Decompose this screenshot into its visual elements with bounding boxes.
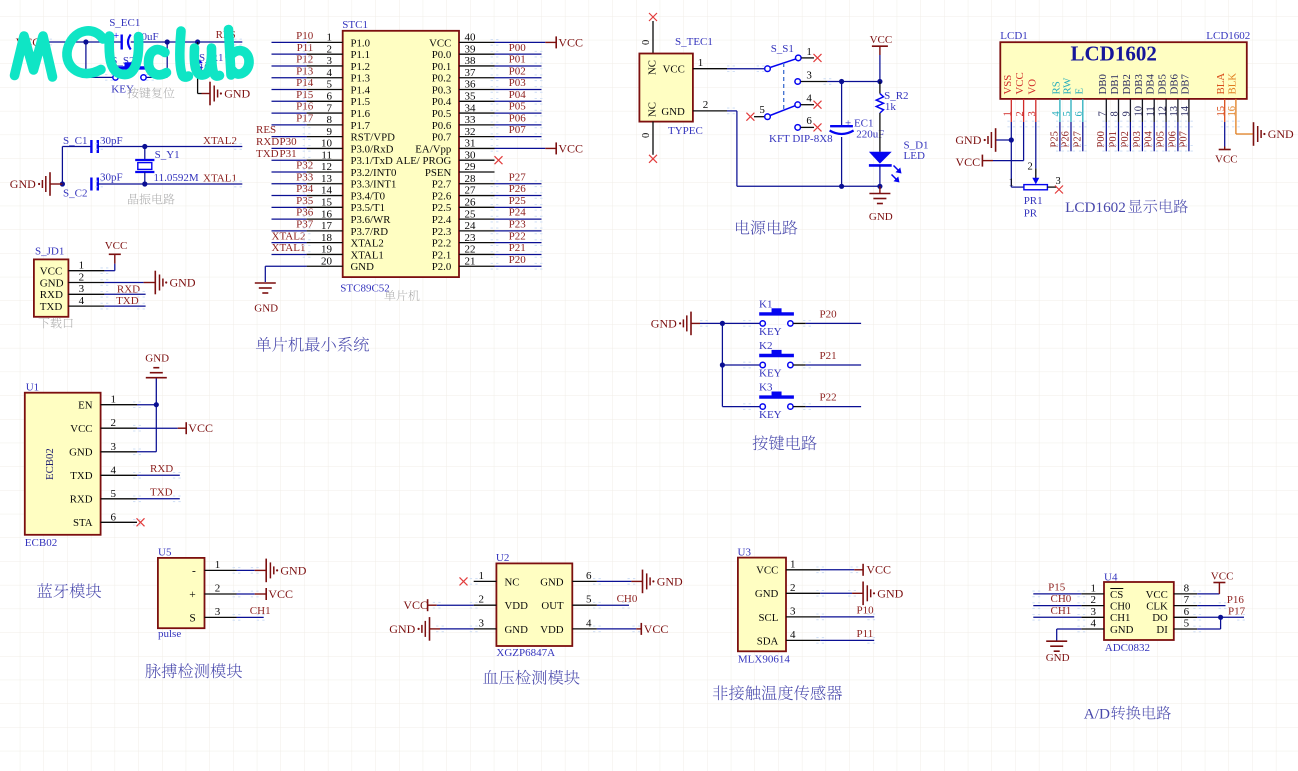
- svg-text:VCC: VCC: [105, 240, 128, 252]
- svg-text:3: 3: [790, 605, 796, 617]
- svg-text:30pF: 30pF: [100, 172, 123, 184]
- svg-text:VCC: VCC: [1211, 571, 1234, 583]
- svg-text:3: 3: [806, 69, 812, 81]
- svg-text:P16: P16: [1227, 594, 1245, 606]
- svg-text:11: 11: [321, 149, 332, 161]
- svg-text:TYPEC: TYPEC: [668, 125, 703, 137]
- svg-text:STC89C52: STC89C52: [340, 283, 390, 295]
- svg-text:RW: RW: [1062, 77, 1074, 95]
- svg-text:TXD: TXD: [116, 295, 139, 307]
- svg-text:DI: DI: [1156, 624, 1168, 636]
- svg-text:1: 1: [790, 558, 796, 570]
- svg-text:XTAL1: XTAL1: [351, 249, 384, 261]
- svg-text:11: 11: [1145, 106, 1156, 116]
- svg-text:DB1: DB1: [1109, 74, 1121, 94]
- svg-text:3: 3: [1027, 111, 1038, 116]
- svg-text:5: 5: [327, 79, 333, 91]
- svg-text:LCD1: LCD1: [1000, 30, 1028, 42]
- svg-text:14: 14: [321, 185, 333, 197]
- svg-text:P21: P21: [509, 242, 526, 254]
- svg-text:1: 1: [215, 559, 221, 571]
- svg-text:22: 22: [465, 244, 476, 256]
- svg-text:PR: PR: [1024, 208, 1038, 220]
- svg-text:P22: P22: [820, 392, 837, 404]
- svg-text:K3: K3: [759, 382, 773, 394]
- svg-text:GND: GND: [651, 316, 677, 330]
- svg-text:CH1: CH1: [1051, 605, 1072, 617]
- svg-text:2: 2: [215, 583, 221, 595]
- svg-text:2: 2: [703, 99, 709, 111]
- svg-text:P3.7/RD: P3.7/RD: [351, 226, 389, 238]
- svg-text:CS: CS: [1110, 589, 1123, 601]
- svg-text:P02: P02: [509, 65, 526, 77]
- svg-text:P25: P25: [509, 195, 527, 207]
- svg-text:VDD: VDD: [505, 600, 529, 612]
- svg-text:GND: GND: [351, 261, 375, 273]
- svg-text:P1.5: P1.5: [351, 96, 371, 108]
- svg-text:32: 32: [465, 126, 476, 138]
- svg-text:-: -: [192, 565, 196, 577]
- svg-text:S_C2: S_C2: [63, 188, 87, 200]
- svg-text:P1.0: P1.0: [351, 37, 371, 49]
- svg-text:VCC: VCC: [268, 587, 293, 601]
- svg-text:6: 6: [1184, 606, 1190, 618]
- svg-text:KEY: KEY: [759, 409, 782, 421]
- svg-text:S_TEC1: S_TEC1: [675, 36, 713, 48]
- svg-text:P22: P22: [509, 230, 526, 242]
- svg-text:2: 2: [1091, 594, 1097, 606]
- svg-text:CH0: CH0: [1110, 601, 1130, 613]
- svg-text:17: 17: [321, 220, 333, 232]
- svg-text:GND: GND: [505, 624, 529, 636]
- svg-text:VCC: VCC: [663, 64, 685, 76]
- svg-text:GND: GND: [1268, 127, 1294, 141]
- svg-text:P23: P23: [509, 218, 527, 230]
- svg-text:10: 10: [1134, 106, 1145, 117]
- svg-text:2: 2: [111, 417, 117, 429]
- svg-text:P36: P36: [296, 207, 314, 219]
- svg-text:P10: P10: [296, 30, 314, 42]
- svg-text:19: 19: [321, 244, 333, 256]
- svg-text:KFT DIP-8X8: KFT DIP-8X8: [769, 133, 833, 145]
- svg-text:8: 8: [327, 114, 333, 126]
- svg-text:40: 40: [465, 32, 477, 44]
- svg-text:P27: P27: [509, 171, 527, 183]
- svg-text:7: 7: [327, 102, 333, 114]
- svg-text:P12: P12: [296, 54, 313, 66]
- svg-text:VO: VO: [1026, 79, 1038, 95]
- svg-text:DB0: DB0: [1097, 74, 1109, 94]
- svg-text:DB4: DB4: [1145, 74, 1157, 95]
- svg-text:6: 6: [111, 511, 117, 523]
- svg-text:P03: P03: [509, 77, 527, 89]
- svg-text:1: 1: [698, 57, 704, 69]
- svg-text:30: 30: [465, 149, 477, 161]
- svg-text:P2.4: P2.4: [432, 214, 452, 226]
- svg-text:MLX90614: MLX90614: [738, 653, 790, 665]
- svg-text:S: S: [189, 612, 195, 624]
- svg-text:3: 3: [1056, 176, 1061, 187]
- svg-text:NC: NC: [646, 102, 658, 117]
- svg-text:KEY: KEY: [759, 368, 782, 380]
- svg-text:P33: P33: [296, 171, 314, 183]
- svg-text:14: 14: [1180, 105, 1191, 116]
- svg-text:GND: GND: [40, 277, 64, 289]
- svg-text:DO: DO: [1152, 612, 1168, 624]
- svg-text:LCD1602: LCD1602: [1206, 30, 1250, 42]
- svg-text:4: 4: [79, 295, 85, 307]
- svg-text:P0.1: P0.1: [432, 61, 452, 73]
- svg-text:TXD: TXD: [40, 301, 63, 313]
- svg-text:P2.5: P2.5: [432, 202, 452, 214]
- svg-text:VCC: VCC: [429, 37, 451, 49]
- svg-text:36: 36: [465, 79, 477, 91]
- svg-text:P10: P10: [857, 605, 875, 617]
- svg-text:GND: GND: [69, 447, 93, 459]
- svg-text:1: 1: [111, 394, 117, 406]
- svg-text:38: 38: [465, 55, 477, 67]
- svg-text:SDA: SDA: [757, 635, 779, 647]
- svg-text:XTAL2: XTAL2: [203, 135, 237, 147]
- svg-text:7: 7: [1098, 111, 1109, 116]
- svg-text:S_Y1: S_Y1: [155, 149, 180, 161]
- svg-text:4: 4: [586, 617, 592, 629]
- svg-text:VCC: VCC: [558, 141, 583, 155]
- svg-text:BLA: BLA: [1215, 73, 1227, 95]
- svg-text:P17: P17: [1228, 606, 1246, 618]
- svg-text:PSEN: PSEN: [425, 167, 452, 179]
- svg-text:ADC0832: ADC0832: [1105, 642, 1150, 654]
- svg-text:11.0592M: 11.0592M: [154, 172, 199, 184]
- svg-text:4: 4: [111, 464, 117, 476]
- svg-text:P13: P13: [296, 65, 314, 77]
- svg-text:6: 6: [1074, 111, 1085, 116]
- svg-text:16: 16: [1227, 106, 1238, 117]
- svg-text:GND: GND: [657, 574, 683, 588]
- svg-text:LCD1602: LCD1602: [1071, 42, 1157, 66]
- svg-text:EN: EN: [78, 400, 93, 412]
- svg-text:VCC: VCC: [1014, 72, 1026, 94]
- svg-text:P3.5/T1: P3.5/T1: [351, 202, 386, 214]
- svg-text:20: 20: [321, 255, 333, 267]
- svg-text:8: 8: [1110, 111, 1121, 116]
- svg-text:GND: GND: [145, 353, 169, 365]
- svg-text:3: 3: [111, 441, 117, 453]
- svg-text:5: 5: [111, 488, 117, 500]
- svg-text:5: 5: [586, 594, 592, 606]
- svg-text:GND: GND: [10, 177, 36, 191]
- svg-text:RXD: RXD: [70, 494, 93, 506]
- svg-text:XTAL1: XTAL1: [272, 242, 306, 254]
- svg-text:GND: GND: [755, 588, 779, 600]
- svg-text:0: 0: [641, 40, 652, 45]
- svg-text:XTAL1: XTAL1: [203, 173, 237, 185]
- svg-text:4: 4: [1091, 618, 1097, 630]
- svg-text:1k: 1k: [885, 101, 897, 113]
- svg-text:KEY: KEY: [759, 326, 782, 338]
- svg-text:PR1: PR1: [1024, 195, 1043, 207]
- svg-text:P21: P21: [820, 350, 837, 362]
- svg-text:RXD: RXD: [256, 136, 279, 148]
- svg-text:BLK: BLK: [1226, 73, 1238, 95]
- svg-text:STA: STA: [73, 517, 93, 529]
- svg-text:26: 26: [465, 197, 477, 209]
- svg-text:ALE/ PROG: ALE/ PROG: [396, 155, 452, 167]
- svg-text:4: 4: [1051, 111, 1062, 117]
- svg-text:P1.2: P1.2: [351, 61, 371, 73]
- svg-text:VCC: VCC: [1146, 589, 1168, 601]
- svg-text:3: 3: [79, 283, 85, 295]
- svg-text:29: 29: [465, 161, 477, 173]
- svg-text:P37: P37: [296, 218, 314, 230]
- svg-text:P32: P32: [296, 160, 313, 172]
- svg-text:21: 21: [465, 255, 476, 267]
- svg-text:A/D: A/D: [1084, 706, 1110, 723]
- svg-text:U5: U5: [158, 546, 172, 558]
- svg-text:P3.3/INT1: P3.3/INT1: [351, 179, 397, 191]
- svg-text:P3.1/TxD: P3.1/TxD: [351, 155, 393, 167]
- svg-text:1: 1: [1003, 111, 1014, 116]
- svg-text:GND: GND: [224, 87, 250, 101]
- svg-text:P20: P20: [820, 308, 838, 320]
- svg-text:CLK: CLK: [1146, 601, 1168, 613]
- svg-text:1: 1: [79, 260, 85, 272]
- svg-text:7: 7: [1184, 594, 1190, 606]
- svg-text:K1: K1: [759, 299, 772, 311]
- svg-text:P15: P15: [1048, 582, 1066, 594]
- svg-text:P2.2: P2.2: [432, 238, 452, 250]
- svg-text:1: 1: [1009, 178, 1014, 189]
- svg-text:P14: P14: [296, 77, 314, 89]
- svg-text:VCC: VCC: [644, 622, 669, 636]
- svg-text:VCC: VCC: [40, 266, 63, 278]
- svg-text:NC: NC: [646, 60, 658, 75]
- svg-text:P0.4: P0.4: [432, 96, 452, 108]
- svg-text:P0.2: P0.2: [432, 73, 452, 85]
- svg-text:15: 15: [321, 197, 333, 209]
- svg-text:P2.0: P2.0: [432, 261, 452, 273]
- svg-text:SCL: SCL: [758, 612, 778, 624]
- svg-text:5: 5: [1184, 618, 1190, 630]
- svg-text:23: 23: [465, 232, 477, 244]
- svg-text:LED: LED: [904, 150, 925, 162]
- svg-text:P16: P16: [296, 101, 314, 113]
- svg-text:6: 6: [327, 91, 333, 103]
- svg-text:K2: K2: [759, 340, 772, 352]
- svg-text:GND: GND: [170, 276, 196, 290]
- svg-text:3: 3: [1091, 606, 1097, 618]
- svg-text:P35: P35: [296, 195, 314, 207]
- svg-text:2: 2: [327, 43, 333, 55]
- svg-text:ECB02: ECB02: [44, 448, 56, 480]
- svg-text:P2.1: P2.1: [432, 249, 452, 261]
- svg-text:34: 34: [465, 102, 477, 114]
- svg-text:37: 37: [465, 67, 477, 79]
- svg-text:P1.7: P1.7: [351, 120, 371, 132]
- svg-text:CH1: CH1: [250, 605, 271, 617]
- svg-text:VCC: VCC: [756, 565, 778, 577]
- svg-text:2: 2: [479, 594, 485, 606]
- svg-text:P05: P05: [509, 101, 527, 113]
- svg-text:VCC: VCC: [403, 598, 428, 612]
- svg-text:DB2: DB2: [1121, 74, 1133, 94]
- svg-text:31: 31: [465, 138, 476, 150]
- svg-text:1: 1: [479, 570, 485, 582]
- svg-text:3: 3: [479, 617, 485, 629]
- svg-text:1: 1: [1091, 582, 1097, 594]
- svg-text:GND: GND: [280, 563, 306, 577]
- svg-text:P25: P25: [1049, 131, 1060, 147]
- svg-text:P34: P34: [296, 183, 314, 195]
- svg-text:LCD1602: LCD1602: [1065, 199, 1126, 216]
- svg-text:30pF: 30pF: [100, 135, 123, 147]
- svg-text:P06: P06: [509, 112, 527, 124]
- svg-text:VCC: VCC: [866, 563, 891, 577]
- svg-text:P0.5: P0.5: [432, 108, 452, 120]
- svg-text:1: 1: [327, 32, 333, 44]
- svg-text:0: 0: [641, 133, 652, 138]
- svg-text:27: 27: [465, 185, 477, 197]
- svg-text:pulse: pulse: [158, 628, 181, 640]
- svg-text:XGZP6847A: XGZP6847A: [496, 647, 555, 659]
- svg-text:VCC: VCC: [870, 34, 893, 46]
- svg-text:RST/VPD: RST/VPD: [351, 132, 396, 144]
- svg-text:P20: P20: [509, 254, 527, 266]
- svg-text:P0.7: P0.7: [432, 132, 452, 144]
- svg-text:16: 16: [321, 208, 333, 220]
- svg-text:P17: P17: [296, 112, 314, 124]
- svg-text:OUT: OUT: [541, 600, 564, 612]
- svg-text:P04: P04: [509, 89, 527, 101]
- svg-text:XTAL2: XTAL2: [272, 230, 306, 242]
- svg-text:TXD: TXD: [256, 148, 279, 160]
- svg-text:RXD: RXD: [117, 283, 140, 295]
- svg-text:RXD: RXD: [150, 463, 173, 475]
- svg-text:P3.0/RxD: P3.0/RxD: [351, 143, 394, 155]
- svg-text:P1.1: P1.1: [351, 49, 371, 61]
- svg-text:2: 2: [1028, 161, 1033, 172]
- svg-text:25: 25: [465, 208, 477, 220]
- svg-text:P3.4/T0: P3.4/T0: [351, 190, 386, 202]
- svg-text:39: 39: [465, 43, 477, 55]
- svg-text:10: 10: [321, 138, 333, 150]
- svg-text:DB7: DB7: [1179, 74, 1191, 95]
- svg-text:12: 12: [1157, 106, 1168, 117]
- svg-text:4: 4: [806, 93, 812, 105]
- svg-text:DB5: DB5: [1157, 74, 1169, 94]
- svg-text:24: 24: [465, 220, 477, 232]
- svg-text:4: 4: [790, 629, 796, 641]
- svg-text:S_EC1: S_EC1: [109, 17, 140, 29]
- svg-text:13: 13: [1169, 106, 1180, 117]
- svg-text:8: 8: [1184, 582, 1190, 594]
- svg-text:P3.6/WR: P3.6/WR: [351, 214, 392, 226]
- svg-text:GND: GND: [661, 106, 685, 118]
- svg-text:2: 2: [790, 582, 796, 594]
- svg-text:VCC: VCC: [1215, 154, 1238, 166]
- svg-text:33: 33: [465, 114, 477, 126]
- svg-text:TXD: TXD: [150, 486, 173, 498]
- svg-text:P04: P04: [1144, 130, 1155, 147]
- svg-text:P26: P26: [509, 183, 527, 195]
- svg-text:P00: P00: [509, 42, 527, 54]
- svg-text:VCC: VCC: [188, 421, 213, 435]
- svg-text:P31: P31: [280, 148, 297, 160]
- svg-text:KEY: KEY: [111, 84, 134, 96]
- svg-text:+: +: [189, 589, 196, 601]
- svg-text:EA/Vpp: EA/Vpp: [415, 143, 451, 155]
- svg-text:3: 3: [327, 55, 333, 67]
- svg-text:VCC: VCC: [558, 35, 583, 49]
- svg-text:ECB02: ECB02: [25, 537, 57, 549]
- svg-text:P00: P00: [1096, 131, 1107, 147]
- svg-text:P15: P15: [296, 89, 314, 101]
- svg-text:DB3: DB3: [1133, 74, 1145, 94]
- svg-text:P07: P07: [509, 124, 527, 136]
- svg-text:S_S1: S_S1: [771, 43, 794, 55]
- svg-text:4: 4: [327, 67, 333, 79]
- svg-text:P1.3: P1.3: [351, 73, 371, 85]
- svg-text:P24: P24: [509, 207, 527, 219]
- svg-text:CH0: CH0: [617, 593, 638, 605]
- svg-text:2: 2: [79, 271, 85, 283]
- svg-text:6: 6: [586, 570, 592, 582]
- svg-text:15: 15: [1216, 106, 1227, 117]
- svg-text:P01: P01: [509, 54, 526, 66]
- svg-text:TXD: TXD: [70, 470, 92, 482]
- svg-text:VDD: VDD: [540, 624, 564, 636]
- svg-text:GND: GND: [1110, 624, 1134, 636]
- svg-text:S_C1: S_C1: [63, 135, 87, 147]
- svg-text:P11: P11: [297, 42, 314, 54]
- svg-text:U2: U2: [496, 552, 509, 564]
- svg-text:GND: GND: [254, 303, 278, 315]
- svg-text:VCC: VCC: [70, 423, 92, 435]
- svg-text:U1: U1: [26, 382, 39, 394]
- svg-text:XTAL2: XTAL2: [351, 238, 384, 250]
- svg-text:P1.6: P1.6: [351, 108, 371, 120]
- svg-text:P0.3: P0.3: [432, 84, 452, 96]
- svg-text:9: 9: [327, 126, 333, 138]
- svg-text:NC: NC: [505, 576, 520, 588]
- svg-text:3: 3: [215, 606, 221, 618]
- svg-text:13: 13: [321, 173, 333, 185]
- svg-text:P2.3: P2.3: [432, 226, 452, 238]
- svg-text:GND: GND: [877, 586, 903, 600]
- svg-text:CH1: CH1: [1110, 612, 1130, 624]
- svg-text:GND: GND: [1046, 652, 1070, 664]
- svg-text:35: 35: [465, 91, 477, 103]
- svg-text:1: 1: [806, 46, 812, 58]
- svg-text:GND: GND: [955, 133, 981, 147]
- svg-text:GND: GND: [540, 576, 564, 588]
- svg-text:5: 5: [1062, 111, 1073, 116]
- svg-text:12: 12: [321, 161, 332, 173]
- svg-text:GND: GND: [869, 211, 893, 223]
- svg-text:P1.4: P1.4: [351, 84, 371, 96]
- svg-text:S_JD1: S_JD1: [35, 245, 64, 257]
- svg-text:P11: P11: [857, 628, 874, 640]
- svg-text:CH0: CH0: [1051, 593, 1072, 605]
- svg-text:P3.2/INT0: P3.2/INT0: [351, 167, 397, 179]
- svg-text:E: E: [1073, 88, 1085, 95]
- svg-text:VCC: VCC: [956, 155, 981, 169]
- svg-text:P2.7: P2.7: [432, 179, 452, 191]
- svg-text:P0.0: P0.0: [432, 49, 452, 61]
- svg-text:9: 9: [1122, 111, 1133, 116]
- svg-text:2: 2: [1015, 111, 1026, 116]
- svg-text:5: 5: [759, 104, 765, 116]
